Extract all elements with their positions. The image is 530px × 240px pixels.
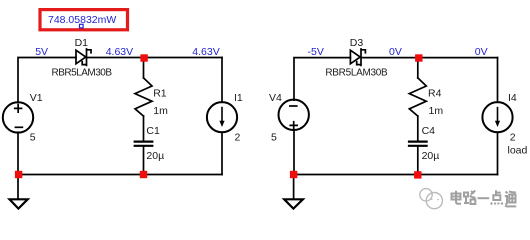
annotation red box [40,10,128,30]
svg-text:C4: C4 [422,125,436,137]
wire top-left V1 to diode anode [18,58,76,103]
junction top left circuit [140,54,147,61]
wire junction to ground left [17,175,19,199]
resistor R1 zigzag [135,78,152,116]
svg-text:5V: 5V [35,46,48,58]
char dian [452,191,462,204]
char dian2 [491,190,503,204]
junction bottom C4 [414,171,421,178]
wire R1 to C1 [143,116,145,141]
svg-text:-5V: -5V [308,46,324,58]
voltage source V4 [279,100,309,130]
junction top right circuit [415,54,422,61]
ground right [284,199,303,208]
wire V4 bottom to junction [293,130,295,175]
svg-text:I4: I4 [508,92,517,104]
svg-text:load: load [508,145,528,157]
svg-text:R4: R4 [428,87,442,99]
wire R4 branch top [417,58,419,78]
wire C4 to bottom junction [417,147,419,175]
char yi [478,197,490,199]
junction bottom C1 [140,171,147,178]
svg-text:D1: D1 [75,37,89,49]
svg-text:0V: 0V [475,46,488,58]
svg-text:20µ: 20µ [422,150,440,162]
wire I1 branch lower [221,132,223,174]
current source I1 [207,102,237,132]
svg-text:1m: 1m [429,105,444,117]
wire diode cathode to I1 top corner [87,57,222,59]
wire junction to ground right [293,175,295,199]
junction bottom V4 [290,171,297,178]
svg-text:20µ: 20µ [146,150,164,162]
wire R1 branch top [143,58,145,78]
svg-text:RBR5LAM30B: RBR5LAM30B [52,68,113,79]
wire diode cathode to I4 top corner [362,57,498,59]
char tong [505,191,516,206]
svg-text:4.63V: 4.63V [106,46,133,58]
svg-text:2: 2 [510,132,516,144]
wire V1 bottom to junction [17,132,19,174]
voltage source V1 [3,102,33,132]
wire bottom right circuit [294,174,498,176]
current source I4 [482,102,512,132]
svg-text:4.63V: 4.63V [192,46,219,58]
diode D3 [350,49,365,65]
wire I4 branch lower [497,132,499,174]
watermark logo icon [420,189,443,209]
annotation anchor marker [80,24,84,28]
diode D1 [76,49,91,65]
svg-text:V4: V4 [269,92,282,104]
capacitor C4 plates [409,142,427,146]
svg-text:0V: 0V [389,46,402,58]
svg-text:D3: D3 [350,37,364,49]
svg-text:V1: V1 [30,92,43,104]
svg-text:RBR5LAM30B: RBR5LAM30B [325,67,388,78]
svg-text:R1: R1 [153,87,167,99]
watermark text 电路一点通 (drawn strokes) [452,191,517,207]
svg-text:I1: I1 [234,92,243,104]
svg-text:5: 5 [30,132,36,144]
wire I1 branch upper [221,58,223,103]
capacitor C1 plates [135,142,153,146]
junction bottom V1 [15,171,22,178]
ground left [10,199,28,208]
wire R4 to C4 [417,116,419,141]
wire C1 to bottom junction [143,147,145,175]
wire bottom left circuit [18,174,222,176]
svg-text:C1: C1 [146,125,160,137]
resistor R4 zigzag [409,78,426,116]
wire I4 branch upper [497,58,499,103]
wire top-left V4 to diode anode [294,58,350,101]
svg-text:5: 5 [271,132,277,144]
svg-text:1m: 1m [153,105,168,117]
svg-text:2: 2 [235,132,241,144]
char lu [464,191,476,205]
